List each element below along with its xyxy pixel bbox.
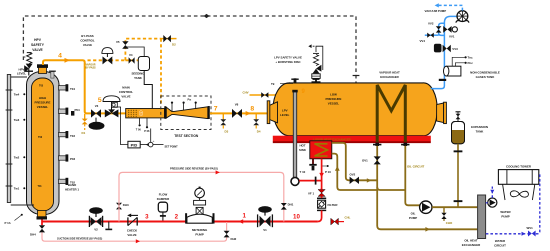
sensor T10 [300,170,306,174]
svg-text:CHL: CHL [345,216,351,220]
svg-text:VESSEL: VESSEL [328,102,340,106]
pipe filter to main line (red) [318,196,322,221]
label WATER PUMP [500,210,511,219]
svg-text:EXCHANGER: EXCHANGER [380,75,399,79]
label LPV LEVEL [280,109,290,118]
wire water circuit dashed: HX to pump [486,202,488,204]
svg-text:PUMP: PUMP [195,233,203,237]
valve check valve [127,214,138,226]
svg-text:PUMP: PUMP [501,215,509,219]
label OIL HEAT EXCHANGER [462,239,481,248]
valve V2 [89,207,103,231]
node 7 [214,106,218,113]
wire water circuit dashed: HX bottom to tower right [486,173,540,235]
valve D1 (drain, orange) [82,114,88,135]
sensor T06 [136,118,142,132]
svg-text:WATER: WATER [495,239,506,243]
pipe main liquid line (red) [42,221,318,223]
svg-text:D4: D4 [257,129,261,133]
svg-text:SET POINT: SET POINT [165,146,179,149]
pipe expansion tank to oil line [454,144,463,207]
svg-text:NON-CONDENSABLE: NON-CONDENSABLE [470,70,500,74]
svg-text:VAPOUR HEAT: VAPOUR HEAT [379,71,400,75]
sensor Tnc [452,56,473,66]
pipe oil: down to oil HX bottom [377,190,477,232]
svg-text:LOW: LOW [330,93,337,97]
node 10 [293,214,300,221]
svg-text:D3: D3 [225,129,229,133]
label METERING PUMP [192,228,208,237]
valve V1 [258,206,273,232]
svg-text:CHO: CHO [446,221,453,225]
sensor pressure taps venturi [171,99,197,112]
label TEST SECTION [174,134,199,138]
svg-text:V8: V8 [235,103,239,107]
svg-text:Pnc: Pnc [468,61,474,65]
nozzle LPV right [437,102,447,123]
flange venturi outlet [208,106,210,119]
svg-text:BAND: BAND [68,183,76,187]
svg-text:8: 8 [250,106,254,113]
svg-text:+ BURSTING DISC: + BURSTING DISC [275,60,301,64]
svg-text:EXCHANGER: EXCHANGER [462,243,481,247]
svg-text:D2: D2 [172,43,176,47]
heat-exchanger liquid (red strip) [273,136,431,143]
node summing junction [148,139,154,147]
sensor Tw2 [14,156,25,160]
svg-text:HEATER 1: HEATER 1 [65,188,79,192]
pipe VV4 stub [425,34,439,36]
gauge HPV level column [6,75,34,206]
wire water circuit dashed: pump to tower [490,187,494,198]
flange M coil right port [401,143,409,146]
svg-text:Tw2: Tw2 [14,156,20,160]
valve OV2 [350,173,372,185]
safety valve LPV + bursting disc stack [308,44,323,83]
label MAIN CONTROL VALVE [119,86,134,99]
wire vent header (dashed, HPV safety valve to LPV top) [23,14,359,83]
heat-exchanger oil (gray) [478,195,486,239]
nozzle HPV side P03 [59,154,76,161]
svg-text:VACUUM PUMP: VACUUM PUMP [425,9,447,13]
label FLOW DAMPER [157,193,170,202]
nozzle HPV side T03 [59,131,76,138]
tower cooling [498,170,538,200]
svg-text:VV1: VV1 [449,35,455,39]
svg-text:VF 1: VF 1 [308,192,314,196]
svg-text:V4: V4 [129,53,133,57]
svg-text:BY-PASS: BY-PASS [85,66,96,69]
flange vacuum line [439,79,446,81]
svg-text:FLOW: FLOW [159,193,168,197]
svg-text:5: 5 [98,97,102,104]
label PRESSURE SIDE REVERSE (BY-PASS) [170,166,218,170]
nozzle HPV dome stub [49,71,56,78]
svg-text:CHECK: CHECK [127,229,138,233]
svg-text:GASES TANK: GASES TANK [476,75,496,79]
svg-text:LPV SAFETY VALVE: LPV SAFETY VALVE [274,56,302,60]
svg-text:P04: P04 [75,108,81,112]
valve DH2 [224,231,237,241]
pump metering [185,187,214,224]
svg-text:MAIN: MAIN [122,86,129,90]
node 8 [250,106,254,113]
svg-text:CONTROL: CONTROL [119,90,134,94]
label VACUUM PUMP [425,9,447,13]
label EXPANSION TANK [471,125,488,134]
svg-text:SEEDING: SEEDING [131,72,145,76]
svg-text:HPV: HPV [34,38,42,42]
valve CHL stub [331,216,351,225]
nozzle HPV top [37,64,48,73]
svg-text:VALVE: VALVE [127,233,136,237]
valve D4 drain [253,113,261,133]
label BY-PASS CONTROL VALVE [80,34,95,47]
pipe vacuum line (blue) [431,16,458,88]
svg-text:DH4: DH4 [30,233,36,237]
svg-text:DH3: DH3 [123,203,129,207]
label VAPOUR BY-PASS [85,63,96,69]
svg-text:VALVE: VALVE [121,95,130,99]
sensor T05 internal [39,85,44,88]
sensor T9 [271,78,299,86]
svg-text:Pts: Pts [188,99,192,102]
pipe venturi test section [166,107,208,119]
svg-text:SINK: SINK [299,148,307,152]
node 2 [175,214,179,221]
pump water [488,198,497,207]
svg-text:PUMP: PUMP [409,216,417,220]
svg-text:Tnc: Tnc [468,56,474,60]
label OIL CIRCUIT [407,165,425,169]
svg-text:Tw1: Tw1 [14,187,20,191]
label OIL PUMP [409,212,417,221]
svg-text:+: + [153,139,155,143]
pipe CHV line to LPV [243,91,282,95]
svg-text:T04: T04 [70,87,75,91]
pipe HPV bottom to main line (red) [41,220,43,226]
node 5 [98,97,102,104]
svg-text:2: 2 [175,214,179,221]
node 1 [242,213,246,220]
wire set point [153,145,178,149]
pipe oil: header to pump inlet via M right port [377,146,420,206]
svg-text:TEST SECTION: TEST SECTION [174,134,199,138]
svg-text:PRESSURE: PRESSURE [35,101,51,105]
sink hot (red box with coil) [310,141,332,159]
pipe oil: M left port via OV1 [376,146,378,190]
valve V3 [89,104,105,130]
drain hot sink with blind flange [309,159,316,171]
valve V6 [163,35,176,47]
svg-text:3: 3 [145,214,149,221]
pipe pressure side reverse by-pass (pink) [119,170,284,221]
svg-text:COOLING TOWER: COOLING TOWER [506,165,532,169]
svg-text:4: 4 [58,53,62,60]
vessel seeding tank [127,47,150,71]
vessel non-condensable gases tank [444,66,461,76]
node 3 [145,214,149,221]
nozzle HPV side T04 [59,84,76,91]
valve VF1 [308,190,325,197]
svg-text:HIGH: HIGH [39,96,46,100]
wire PID to summer [140,143,148,146]
svg-text:T 06: T 06 [136,129,142,132]
svg-text:WV1: WV1 [527,226,534,230]
svg-text:V5: V5 [116,40,120,44]
sensor P10 [322,165,332,174]
svg-text:PID: PID [131,142,138,147]
wire flow arrow node8 [246,111,251,116]
vessel expansion tank [452,112,465,144]
sensor T01 internal [38,185,43,188]
label SEEDING TANK [131,72,145,81]
safety valve HPV (spring relief) [23,53,33,76]
svg-text:VV3: VV3 [452,47,458,51]
sensor Pnc [455,61,473,66]
pipe oil: pump outlet to oil HX top [432,206,477,208]
sensor T03 internal [38,136,43,139]
svg-text:VESSEL: VESSEL [37,105,49,109]
wire PID output to control valve [115,107,128,145]
flange M coil left port [373,143,381,146]
label HPV LEVEL [17,68,27,76]
label VAPOUR HEAT EXCHANGER [379,71,400,80]
svg-text:CHV: CHV [243,91,249,95]
svg-text:VALVE: VALVE [32,48,43,52]
pipe oil: hot sink bottom port to lower header [332,154,377,190]
pipe oil: hot sink top port to OV2 [332,143,377,181]
drain blind stub [105,222,112,230]
label LOW PRESSURE VESSEL [326,93,342,106]
label WATER CIRCUIT [494,239,506,248]
svg-text:PRESSURE: PRESSURE [326,97,342,101]
valve DH3 on pressure by-pass leg [116,203,129,210]
svg-text:V3: V3 [95,104,99,108]
svg-text:P03: P03 [70,157,76,161]
svg-text:LEVEL: LEVEL [17,72,27,76]
svg-text:T03: T03 [70,134,75,138]
vessel LPV (low pressure vessel) [273,83,437,136]
pipe LPV drain to hot sink line (red) [299,177,321,185]
label LPV SAFETY VALVE + BURSTING DISC [274,56,302,65]
svg-text:DH2: DH2 [231,237,237,241]
valve CHV [261,92,268,98]
sensor Tw3 [14,118,25,122]
node 4 [58,53,62,60]
svg-text:CIRCUIT: CIRCUIT [494,244,506,248]
svg-text:VV2: VV2 [428,22,434,26]
label SUCTION SIDE REVERSE (BY-PASS) [57,237,102,241]
pump oil [420,201,432,213]
svg-text:D1: D1 [82,131,86,135]
nozzle LPV inlet left [267,101,277,124]
valve VV2 [428,22,441,33]
svg-text:METERING: METERING [192,228,208,232]
sensor Tw1 [14,187,25,191]
nozzle HPV side P04 [59,108,81,116]
valve V4 (seeding tank inlet) [129,53,135,64]
controller PID box [128,141,140,148]
pump vacuum [456,11,469,23]
svg-text:SAFETY: SAFETY [31,43,45,47]
svg-text:P 06: P 06 [144,130,150,133]
svg-text:1: 1 [242,213,246,220]
svg-text:10: 10 [293,214,300,221]
valve CHO drain [441,207,453,225]
valve by-pass control valve [102,48,113,65]
pipe VV2 loop [439,23,445,35]
valve VV4 [420,33,434,43]
label HOT SINK [299,144,307,153]
svg-text:TANK: TANK [134,76,143,80]
svg-text:Tw3: Tw3 [14,118,20,122]
svg-text:V1: V1 [263,228,267,232]
filter [317,198,338,210]
svg-text:OV1: OV1 [362,159,368,163]
svg-text:HOT: HOT [299,144,305,148]
svg-text:OIL HEAT: OIL HEAT [464,239,477,243]
svg-text:V2: V2 [94,228,98,232]
svg-text:Tw4: Tw4 [14,93,20,97]
svg-text:T9: T9 [271,82,275,86]
vessel HPV outer shell [27,72,60,215]
svg-text:OV2: OV2 [350,173,356,177]
label CHECK VALVE [127,229,138,238]
valve WV1 [527,226,536,237]
valve VV1 [443,26,457,39]
svg-text:WATER: WATER [500,210,511,214]
svg-text:DH1: DH1 [288,203,294,207]
nozzle HPV bottom [37,211,48,220]
svg-text:EXPANSION: EXPANSION [471,125,488,129]
valve V5 [116,40,129,49]
valve D3 drain [220,113,228,133]
nozzle HPV side T02 [59,178,76,185]
label BAND HEATER 1 [65,183,79,192]
svg-text:7: 7 [214,106,218,113]
gauge LPV level column [291,90,299,186]
dashed vent connection at LPV top [321,188,323,190]
svg-text:LPV: LPV [282,109,288,113]
wire seeding injection line into mixer [144,71,158,113]
pipe suction side reverse by-pass (pink) [42,222,227,243]
svg-text:TANK: TANK [476,130,485,134]
valve V8 [232,103,242,118]
pipe vapour by-pass (dashed orange) [88,39,177,104]
pipe mixer tube [126,109,165,118]
svg-text:P 1h: P 1h [5,221,11,225]
valve main control valve with actuator [103,96,120,118]
sensor P06 [144,118,150,133]
svg-text:CONTROL: CONTROL [80,39,95,43]
heat-exchanger vapour (M coil) [377,85,405,142]
wire flow arrow main line [238,219,243,224]
valve OV1 [362,156,381,164]
sensor P1h [5,214,23,225]
vessel HPV inner (high pressure vessel) [32,78,54,211]
pipe hot sink outlet down (red) [319,159,324,190]
svg-text:T05: T05 [39,85,44,88]
svg-text:FILTER: FILTER [328,203,339,207]
svg-text:BY-PASS: BY-PASS [81,34,94,38]
pipe vapour main line HPV top to test section [43,60,126,113]
label HPV SAFETY VALVE [31,38,45,52]
valve VV3 with canister [434,44,458,53]
svg-text:LEVEL: LEVEL [280,113,290,117]
wire vacuum discharge dashed with arrow [435,3,463,10]
box test section (dashed) [161,96,211,130]
valve DH4 [30,225,45,237]
svg-text:VALVE: VALVE [83,43,92,47]
damper flow [158,202,167,220]
svg-text:DAMPER: DAMPER [157,197,170,201]
svg-text:PRESSURE SIDE REVERSE (BY-PASS: PRESSURE SIDE REVERSE (BY-PASS) [170,166,218,170]
node 6 [139,112,143,118]
svg-text:SUCTION SIDE REVERSE (BY-PASS): SUCTION SIDE REVERSE (BY-PASS) [57,237,102,241]
sensor Tw4 [14,93,25,97]
label COOLING TOWER [506,165,532,169]
wire flow arrow node4 [65,58,70,63]
valve DH1 [281,203,294,210]
label NON-CONDENSABLE GASES TANK [470,70,500,79]
flange mixer outlet [164,106,166,119]
wire summer to sensors [150,129,152,143]
svg-text:T01: T01 [38,185,43,188]
svg-text:VV4: VV4 [420,39,426,43]
svg-text:OIL: OIL [411,212,416,216]
pipe venturi exit to LPV [210,112,268,114]
svg-text:OIL CIRCUIT: OIL CIRCUIT [407,165,425,169]
svg-text:T03: T03 [38,136,43,139]
node 9 [302,89,306,95]
svg-text:T 10: T 10 [300,170,306,174]
svg-text:P 10: P 10 [325,170,331,174]
label HIGH PRESSURE VESSEL [35,96,51,109]
